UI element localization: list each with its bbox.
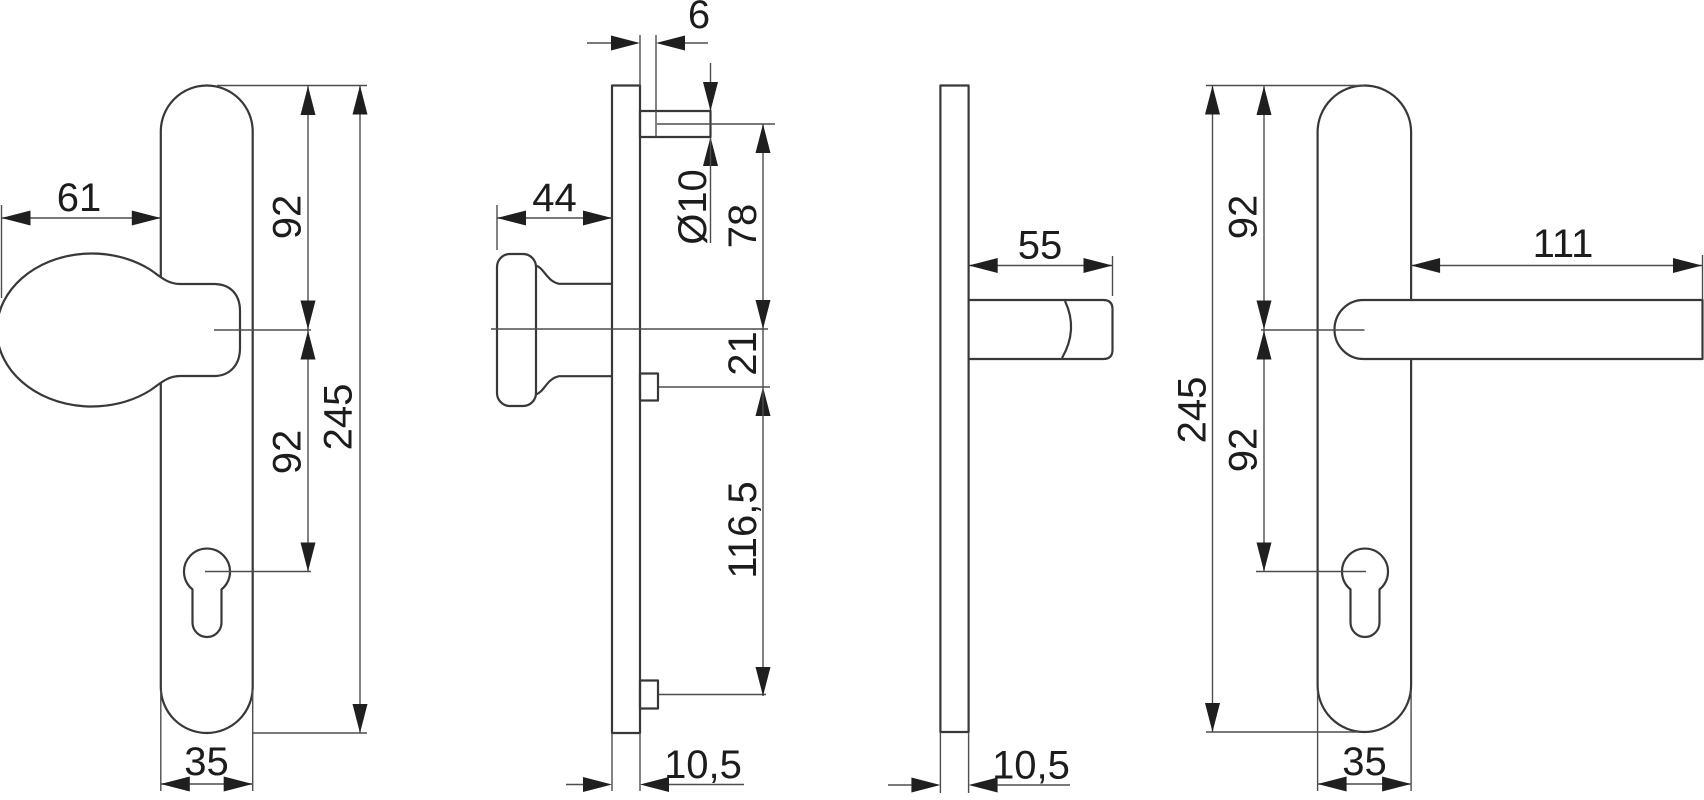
dimension 92 upper line — [307, 86, 309, 330]
dimension 6 left tail line — [587, 42, 611, 44]
svg-text:10,5: 10,5 — [992, 744, 1070, 788]
dimension 6 left arrow — [611, 36, 640, 51]
dimension 55 line — [969, 265, 1113, 267]
dimension 35 left arrow — [1318, 777, 1347, 792]
dimension 92 upper bottom arrow — [301, 301, 316, 330]
top extension line — [217, 85, 367, 87]
svg-text:245: 245 — [317, 384, 361, 451]
keyhole centerline — [205, 571, 311, 573]
svg-text:35: 35 — [1342, 740, 1387, 784]
svg-text:35: 35 — [184, 740, 229, 784]
dimension 10,5 left extension line — [611, 733, 613, 791]
svg-text:61: 61 — [57, 176, 102, 220]
backplate (side view, thin rectangle) — [612, 86, 640, 734]
top peg centerline — [657, 123, 775, 125]
lever grip (front view, over plate) — [1335, 300, 1703, 359]
bottom extension line — [253, 732, 367, 734]
dimension 10,5 right tail line — [669, 784, 744, 786]
keyhole (euro profile cylinder cutout) — [184, 549, 230, 637]
dimension 44 line — [497, 217, 612, 219]
backplate (side view, thin rectangle) — [940, 86, 968, 733]
dimension 6 right arrow — [656, 36, 685, 51]
dimension 44 left arrow — [497, 211, 526, 226]
dimension 21 line — [762, 329, 764, 387]
dimension 21 bottom outside arrow — [756, 387, 771, 416]
dimension 10,5 right extension line — [639, 733, 641, 791]
dimension 55 right arrow — [1084, 258, 1113, 273]
dimension 92 upper top arrow — [1257, 86, 1272, 115]
dimension 61 line — [2, 217, 161, 219]
lever centerline — [1261, 329, 1365, 331]
middle fixing peg — [640, 374, 658, 401]
bottom fixing peg — [640, 681, 658, 709]
dimension 116,5 line — [762, 387, 764, 696]
dimension 44 right arrow — [583, 211, 612, 226]
dimension 35 left extension line — [1317, 690, 1319, 791]
backplate outline (front view, rounded ends) — [1318, 86, 1412, 733]
svg-text:78: 78 — [721, 204, 765, 249]
dimension 35 right extension line — [252, 690, 254, 791]
svg-text:55: 55 — [1018, 224, 1063, 268]
dimension diameter 10 upper line — [710, 63, 712, 110]
top extension line — [1206, 85, 1364, 87]
dimension diameter 10 up arrow — [703, 137, 718, 166]
svg-text:245: 245 — [1171, 377, 1215, 444]
dimension 35 line — [161, 783, 253, 785]
dimension 10,5 right arrow — [969, 778, 998, 793]
svg-text:44: 44 — [532, 176, 577, 220]
dimension 55 left arrow — [969, 258, 998, 273]
dimension 61 right arrow — [132, 211, 161, 226]
bottom peg centerline — [659, 694, 766, 696]
dimension 245 bottom arrow — [353, 704, 368, 733]
dimension 61 left extension line — [1, 205, 3, 298]
dimension 78 line — [762, 124, 764, 329]
dimension 44 left extension line — [496, 205, 498, 250]
dimension 92 upper top arrow — [301, 86, 316, 115]
dimension 111 right extension line — [1702, 255, 1704, 300]
lever grip (side view) — [969, 300, 1113, 359]
dimension 55 right extension line — [1112, 256, 1114, 296]
dimension 6 right tail line — [685, 42, 708, 44]
dimension 10,5 right arrow — [640, 777, 669, 792]
dimension 92 lower top arrow — [1257, 331, 1272, 360]
backplate outline (front view, rounded ends) — [161, 86, 253, 734]
dimension 92 lower line — [1263, 331, 1265, 572]
svg-text:92: 92 — [266, 195, 310, 240]
dimension 92 lower top arrow — [301, 331, 316, 360]
main centerline — [491, 328, 768, 330]
dimension 78 top arrow — [756, 124, 771, 153]
dimension 10,5 left arrow — [583, 777, 612, 792]
dimension 10,5 right extension line — [968, 732, 970, 793]
dimension 61 left arrow — [2, 211, 31, 226]
lever neck transition curve — [1062, 301, 1071, 358]
svg-text:92: 92 — [1222, 428, 1266, 473]
svg-text:6: 6 — [688, 0, 710, 37]
dimension 35 left extension line — [160, 690, 162, 791]
dimension 10,5 left tail line — [888, 784, 911, 786]
dimension 6 right extension line — [655, 35, 657, 137]
dimension 245 line — [359, 86, 361, 734]
svg-text:Ø10: Ø10 — [671, 169, 715, 245]
keyhole centerline — [1256, 571, 1366, 573]
dimension 245 top arrow — [1205, 86, 1220, 115]
knob head (side view, rounded rectangle) — [497, 254, 536, 406]
svg-text:116,5: 116,5 — [721, 481, 765, 578]
knob centerline — [214, 329, 311, 331]
dimension 111 left arrow — [1411, 258, 1440, 273]
middle peg centerline — [659, 386, 770, 388]
dimension 35 line — [1318, 783, 1412, 785]
dimension 92 upper bottom arrow — [1257, 301, 1272, 330]
dimension 111 line — [1411, 265, 1702, 267]
dimension 10,5 right tail line — [998, 784, 1070, 786]
svg-text:21: 21 — [721, 331, 765, 376]
dimension 111 right arrow — [1673, 258, 1702, 273]
svg-text:92: 92 — [266, 430, 310, 475]
knob neck bottom profile — [536, 376, 612, 394]
dimension 35 left arrow — [161, 777, 190, 792]
dimension 78 bottom arrow — [756, 300, 771, 329]
dimension 35 right arrow — [224, 777, 253, 792]
knob (front view, pear shape over plate) — [0, 254, 240, 407]
dimension diameter 10 down arrow — [703, 82, 718, 111]
svg-text:10,5: 10,5 — [664, 743, 742, 787]
dimension 92 lower bottom arrow — [301, 543, 316, 572]
dimension 245 line — [1212, 86, 1214, 733]
dimension 10,5 left extension line — [939, 732, 941, 793]
dimension 92 upper line — [1263, 86, 1265, 330]
keyhole (euro profile cylinder cutout) — [1342, 549, 1388, 637]
dimension 92 lower bottom arrow — [1257, 543, 1272, 572]
knob neck top profile — [536, 266, 612, 284]
dimension 35 right extension line — [1410, 690, 1412, 791]
dimension 245 top arrow — [353, 86, 368, 115]
svg-text:111: 111 — [1533, 222, 1594, 266]
bottom extension line — [1206, 731, 1358, 733]
dimension diameter 10 lower line — [710, 138, 712, 243]
dimension 10,5 left tail line — [566, 784, 583, 786]
top fixing peg — [640, 111, 711, 137]
dimension 116,5 bottom arrow — [756, 667, 771, 696]
dimension 6 left extension line — [639, 35, 641, 86]
dimension 245 bottom arrow — [1205, 703, 1220, 732]
dimension 35 right arrow — [1382, 777, 1411, 792]
dimension 92 lower line — [307, 331, 309, 572]
dimension 10,5 left arrow — [911, 778, 940, 793]
svg-text:92: 92 — [1222, 195, 1266, 240]
